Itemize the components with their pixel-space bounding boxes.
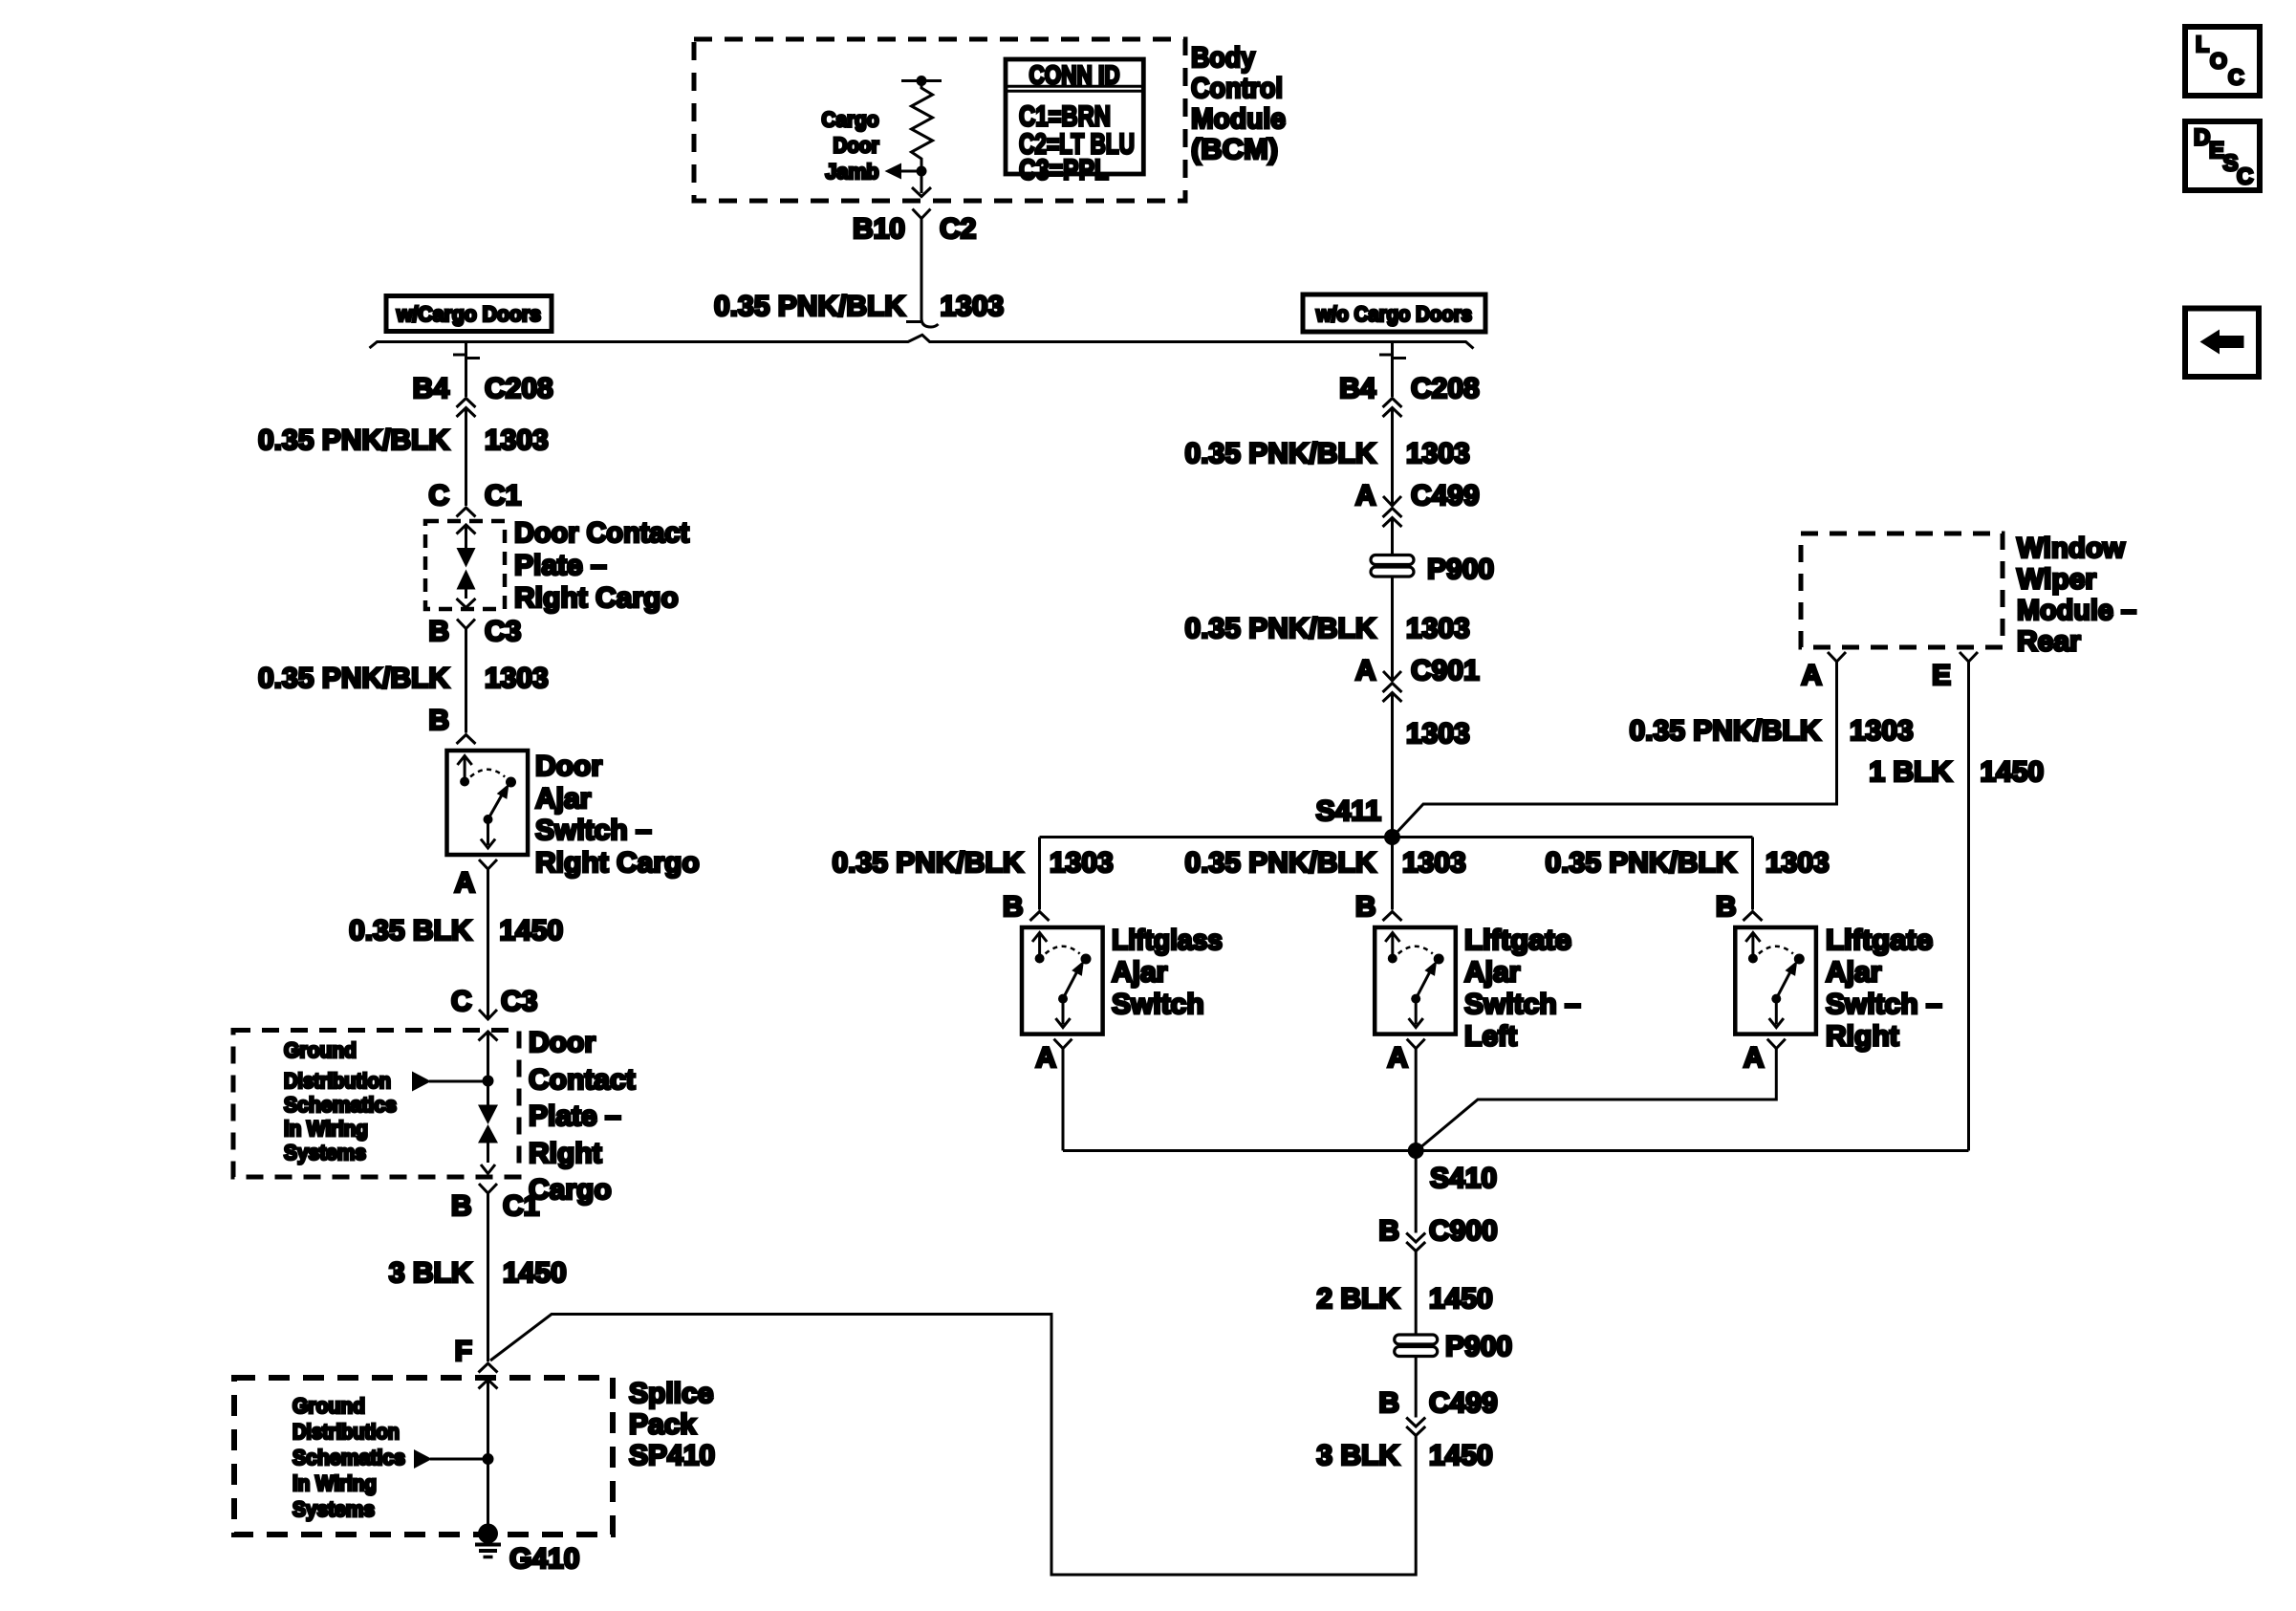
svg-text:0.35 BLK: 0.35 BLK bbox=[349, 915, 472, 947]
arrow: ground distribution reference (lower) bbox=[414, 1449, 432, 1469]
svg-text:C: C bbox=[2228, 65, 2244, 90]
svg-text:Switch –: Switch – bbox=[1464, 989, 1581, 1020]
svg-text:C2: C2 bbox=[940, 213, 976, 245]
svg-text:1303: 1303 bbox=[1402, 847, 1466, 879]
contact plate 2 contacts bbox=[487, 1081, 489, 1105]
arrow: cargo door jamb signal (left) bbox=[885, 163, 902, 180]
svg-text:Cargo: Cargo bbox=[529, 1174, 612, 1206]
connector C499 pin B bbox=[1415, 1357, 1418, 1418]
svg-text:Door: Door bbox=[535, 751, 602, 782]
svg-text:B: B bbox=[1003, 891, 1024, 923]
door contact plate 1 dashed box bbox=[425, 521, 505, 609]
svg-text:Ajar: Ajar bbox=[535, 783, 592, 815]
svg-text:Ajar: Ajar bbox=[1826, 957, 1882, 989]
node: SP410 junction bbox=[483, 1453, 494, 1465]
svg-text:C901: C901 bbox=[1411, 655, 1480, 686]
wire: liftgate right A to S410 bbox=[1417, 1049, 1776, 1151]
wire: options bus with split bump bbox=[370, 335, 1474, 348]
svg-text:Right: Right bbox=[529, 1138, 602, 1169]
svg-text:D: D bbox=[2194, 125, 2210, 151]
svg-text:1450: 1450 bbox=[503, 1257, 567, 1289]
svg-text:C900: C900 bbox=[1429, 1215, 1498, 1247]
connector pin A of wiper module bbox=[1828, 652, 1846, 662]
svg-text:Pack: Pack bbox=[629, 1409, 696, 1441]
svg-text:B: B bbox=[451, 1190, 472, 1222]
table: CONN ID bbox=[1006, 59, 1143, 174]
svg-text:Systems: Systems bbox=[284, 1141, 366, 1165]
svg-text:CONN ID: CONN ID bbox=[1029, 61, 1120, 90]
svg-text:C3: C3 bbox=[501, 986, 537, 1017]
svg-text:3 BLK: 3 BLK bbox=[389, 1257, 472, 1289]
svg-text:Door: Door bbox=[834, 134, 879, 158]
svg-text:1303: 1303 bbox=[1850, 715, 1914, 747]
svg-text:Distribution: Distribution bbox=[292, 1420, 400, 1444]
svg-text:B4: B4 bbox=[1339, 373, 1376, 404]
arrow: ground distribution reference (upper) bbox=[412, 1072, 431, 1092]
svg-text:A: A bbox=[454, 867, 475, 899]
svg-text:Switch: Switch bbox=[1112, 989, 1204, 1020]
svg-text:O: O bbox=[2210, 49, 2227, 74]
svg-text:Module –: Module – bbox=[2017, 595, 2136, 626]
svg-text:1303: 1303 bbox=[485, 663, 549, 694]
connector C900 pin B bbox=[1415, 1151, 1418, 1233]
svg-text:P900: P900 bbox=[1427, 554, 1494, 585]
svg-text:A: A bbox=[1744, 1042, 1765, 1074]
svg-text:B: B bbox=[428, 705, 449, 736]
svg-text:Window: Window bbox=[2017, 533, 2126, 564]
svg-text:Ground: Ground bbox=[292, 1394, 365, 1418]
switch S1: Door Ajar Switch - Right Cargo bbox=[447, 751, 529, 855]
svg-text:0.35 PNK/BLK: 0.35 PNK/BLK bbox=[1630, 715, 1821, 747]
connector C208 pin B4 (left) bbox=[465, 353, 467, 397]
wire: 1 BLK 1450 pin E to S410 bbox=[1967, 662, 1970, 1151]
splice pack SP410 dashed box bbox=[234, 1378, 613, 1535]
svg-text:0.35 PNK/BLK: 0.35 PNK/BLK bbox=[1185, 438, 1376, 469]
node: cargo door jamb junction bbox=[917, 166, 927, 177]
svg-text:1303: 1303 bbox=[485, 425, 549, 456]
svg-text:A: A bbox=[1387, 1042, 1408, 1074]
svg-text:Liftgate: Liftgate bbox=[1826, 925, 1933, 956]
svg-text:A: A bbox=[1035, 1042, 1056, 1074]
svg-text:Right Cargo: Right Cargo bbox=[535, 847, 700, 879]
wire: 2 BLK 1450 bbox=[1415, 1252, 1418, 1336]
svg-text:3 BLK: 3 BLK bbox=[1316, 1440, 1399, 1471]
svg-text:A: A bbox=[1355, 655, 1376, 686]
module: Window Wiper Module - Rear dashed box bbox=[1801, 533, 2003, 647]
svg-text:Contact: Contact bbox=[529, 1064, 636, 1096]
svg-text:C1: C1 bbox=[485, 480, 521, 512]
svg-text:(BCM): (BCM) bbox=[1191, 134, 1278, 165]
wire: liftgate left A to S410 bbox=[1415, 1049, 1418, 1151]
svg-text:Ajar: Ajar bbox=[1112, 957, 1168, 989]
svg-text:Switch –: Switch – bbox=[1826, 989, 1942, 1020]
svg-text:A: A bbox=[1801, 660, 1822, 691]
svg-text:Splice: Splice bbox=[629, 1378, 713, 1409]
grommet P900 (lower) bbox=[1395, 1335, 1438, 1344]
svg-text:1303: 1303 bbox=[1406, 718, 1470, 750]
svg-text:C208: C208 bbox=[485, 373, 553, 404]
svg-text:C3: C3 bbox=[485, 616, 521, 647]
svg-text:in Wiring: in Wiring bbox=[292, 1471, 377, 1495]
label box: w/o Cargo Doors bbox=[1303, 294, 1485, 332]
svg-text:C: C bbox=[428, 480, 449, 512]
svg-text:L: L bbox=[2196, 32, 2209, 56]
ground G410 bbox=[478, 1524, 498, 1544]
wire: w/o Cargo branch drop bbox=[1391, 342, 1394, 354]
svg-text:B4: B4 bbox=[413, 373, 450, 404]
svg-text:SP410: SP410 bbox=[629, 1440, 715, 1471]
left-arrow continuation box bbox=[2185, 309, 2259, 378]
svg-text:B: B bbox=[1716, 891, 1737, 923]
svg-text:Right: Right bbox=[1826, 1021, 1899, 1053]
svg-text:Door Contact: Door Contact bbox=[514, 517, 689, 549]
svg-text:2 BLK: 2 BLK bbox=[1316, 1283, 1399, 1315]
svg-text:Body: Body bbox=[1191, 42, 1255, 74]
wire: BCM B10 down to options split bbox=[921, 219, 923, 320]
ground distribution schematics dashed box (upper) bbox=[233, 1031, 519, 1178]
svg-text:B: B bbox=[428, 616, 449, 647]
svg-text:E: E bbox=[1932, 660, 1951, 691]
svg-text:Ajar: Ajar bbox=[1464, 957, 1521, 989]
svg-text:0.35 PNK/BLK: 0.35 PNK/BLK bbox=[714, 291, 905, 322]
svg-text:C499: C499 bbox=[1429, 1387, 1498, 1419]
svg-text:C: C bbox=[2237, 164, 2253, 190]
label box: w/Cargo Doors bbox=[386, 296, 552, 332]
svg-text:Liftglass: Liftglass bbox=[1112, 925, 1223, 956]
svg-text:1303: 1303 bbox=[1050, 847, 1114, 879]
svg-text:C208: C208 bbox=[1411, 373, 1480, 404]
wire: liftglass A to S410 bbox=[1062, 1049, 1065, 1151]
svg-text:Schematics: Schematics bbox=[284, 1093, 397, 1117]
connector C208 pin B4 (right) bbox=[1391, 353, 1394, 397]
switch S4: Liftgate Ajar Switch - Right bbox=[1735, 927, 1816, 1034]
svg-text:1450: 1450 bbox=[1981, 756, 2045, 788]
svg-text:1450: 1450 bbox=[500, 915, 564, 947]
svg-text:B10: B10 bbox=[853, 213, 905, 245]
connector C3 pin B (left upper) bbox=[457, 620, 475, 629]
svg-text:Door: Door bbox=[529, 1027, 596, 1058]
svg-text:Liftgate: Liftgate bbox=[1464, 925, 1571, 956]
svg-text:Plate –: Plate – bbox=[514, 550, 607, 581]
wire: S410 collector line bbox=[1063, 1149, 1969, 1152]
wire: 0.35 PNK/BLK 1303 to C901 bbox=[1391, 577, 1394, 681]
svg-text:1303: 1303 bbox=[1765, 847, 1830, 879]
svg-text:0.35 PNK/BLK: 0.35 PNK/BLK bbox=[1185, 847, 1376, 879]
wire: S411 distribution line bbox=[1040, 836, 1753, 838]
svg-text:w/o Cargo Doors: w/o Cargo Doors bbox=[1315, 302, 1472, 326]
svg-text:Wiper: Wiper bbox=[2017, 564, 2096, 596]
svg-text:Control: Control bbox=[1191, 73, 1283, 104]
svg-text:Ground: Ground bbox=[284, 1038, 357, 1062]
switch S3: Liftgate Ajar Switch - Left bbox=[1375, 927, 1456, 1034]
svg-text:0.35 PNK/BLK: 0.35 PNK/BLK bbox=[258, 425, 449, 456]
svg-text:C: C bbox=[451, 986, 472, 1017]
wire: 0.35 PNK/BLK 1303 to C1 bbox=[465, 408, 467, 507]
svg-text:0.35 PNK/BLK: 0.35 PNK/BLK bbox=[833, 847, 1024, 879]
svg-text:P900: P900 bbox=[1445, 1331, 1512, 1362]
connector pin E of wiper module bbox=[1960, 652, 1978, 662]
svg-text:Module: Module bbox=[1191, 103, 1286, 135]
svg-text:1303: 1303 bbox=[1406, 613, 1470, 644]
svg-text:Plate –: Plate – bbox=[529, 1100, 621, 1132]
DESC reference box bbox=[2185, 121, 2260, 190]
connector C2 pin B10 (female Y at BCM) bbox=[913, 209, 931, 219]
node: contact plate junction bbox=[483, 1076, 494, 1087]
svg-text:F: F bbox=[455, 1336, 472, 1367]
svg-text:1450: 1450 bbox=[1429, 1283, 1493, 1315]
wire: w/Cargo branch drop bbox=[465, 342, 467, 354]
svg-text:C499: C499 bbox=[1411, 480, 1480, 512]
svg-text:B: B bbox=[1378, 1387, 1399, 1419]
svg-text:Cargo: Cargo bbox=[822, 107, 879, 131]
svg-text:Right Cargo: Right Cargo bbox=[514, 582, 679, 614]
resistor R1: cargo door jamb input pull-up bbox=[901, 79, 942, 82]
svg-text:Switch –: Switch – bbox=[535, 815, 652, 846]
wire: 3 BLK 1450 to splice pack bbox=[487, 1193, 489, 1361]
svg-text:A: A bbox=[1355, 480, 1376, 512]
svg-text:w/Cargo Doors: w/Cargo Doors bbox=[396, 302, 541, 326]
wire: 1303 to S411 bbox=[1391, 693, 1394, 838]
node S411: splice bbox=[1384, 829, 1400, 845]
svg-text:Rear: Rear bbox=[2017, 626, 2081, 658]
svg-text:1450: 1450 bbox=[1429, 1440, 1493, 1471]
svg-text:S410: S410 bbox=[1430, 1163, 1497, 1194]
LOC reference box bbox=[2185, 27, 2260, 96]
node S410: splice bbox=[1408, 1143, 1424, 1159]
grommet P900 (upper) bbox=[1371, 555, 1414, 565]
svg-text:1303: 1303 bbox=[941, 291, 1005, 322]
wire: 0.35 PNK/BLK 1303 to door ajar switch bbox=[465, 629, 467, 733]
svg-text:in Wiring: in Wiring bbox=[284, 1117, 368, 1141]
svg-text:0.35 PNK/BLK: 0.35 PNK/BLK bbox=[1546, 847, 1737, 879]
splice split curl at bus bbox=[906, 320, 921, 323]
svg-text:C1: C1 bbox=[503, 1190, 539, 1222]
module U1: Body Control Module dashed box bbox=[694, 39, 1185, 201]
svg-text:S411: S411 bbox=[1316, 795, 1381, 827]
svg-text:G410: G410 bbox=[509, 1543, 579, 1575]
wire: S411 to wiper module pin A bbox=[1395, 662, 1837, 835]
svg-text:0.35 PNK/BLK: 0.35 PNK/BLK bbox=[1185, 613, 1376, 644]
contact plate 1 contacts bbox=[457, 548, 476, 568]
svg-text:Schematics: Schematics bbox=[292, 1446, 405, 1469]
svg-text:B: B bbox=[1355, 891, 1376, 923]
svg-text:Distribution: Distribution bbox=[284, 1069, 391, 1093]
svg-text:1 BLK: 1 BLK bbox=[1869, 756, 1952, 788]
svg-text:C3=PPL: C3=PPL bbox=[1019, 155, 1109, 186]
switch S2: Liftglass Ajar Switch bbox=[1022, 927, 1103, 1034]
arrow: to ground sense (down) bbox=[921, 171, 923, 193]
svg-text:0.35 PNK/BLK: 0.35 PNK/BLK bbox=[258, 663, 449, 694]
svg-text:Left: Left bbox=[1464, 1021, 1517, 1053]
connector C1 pin B (lower) bbox=[479, 1184, 497, 1193]
svg-text:Systems: Systems bbox=[292, 1497, 375, 1521]
svg-text:B: B bbox=[1378, 1215, 1399, 1247]
wire: 0.35 BLK 1450 bbox=[487, 869, 489, 1019]
wire: 0.35 PNK/BLK 1303 to C499 bbox=[1391, 408, 1394, 507]
svg-text:Jamb: Jamb bbox=[826, 160, 879, 184]
wire: F branch to right column ground bbox=[490, 1315, 1416, 1576]
svg-text:1303: 1303 bbox=[1406, 438, 1470, 469]
